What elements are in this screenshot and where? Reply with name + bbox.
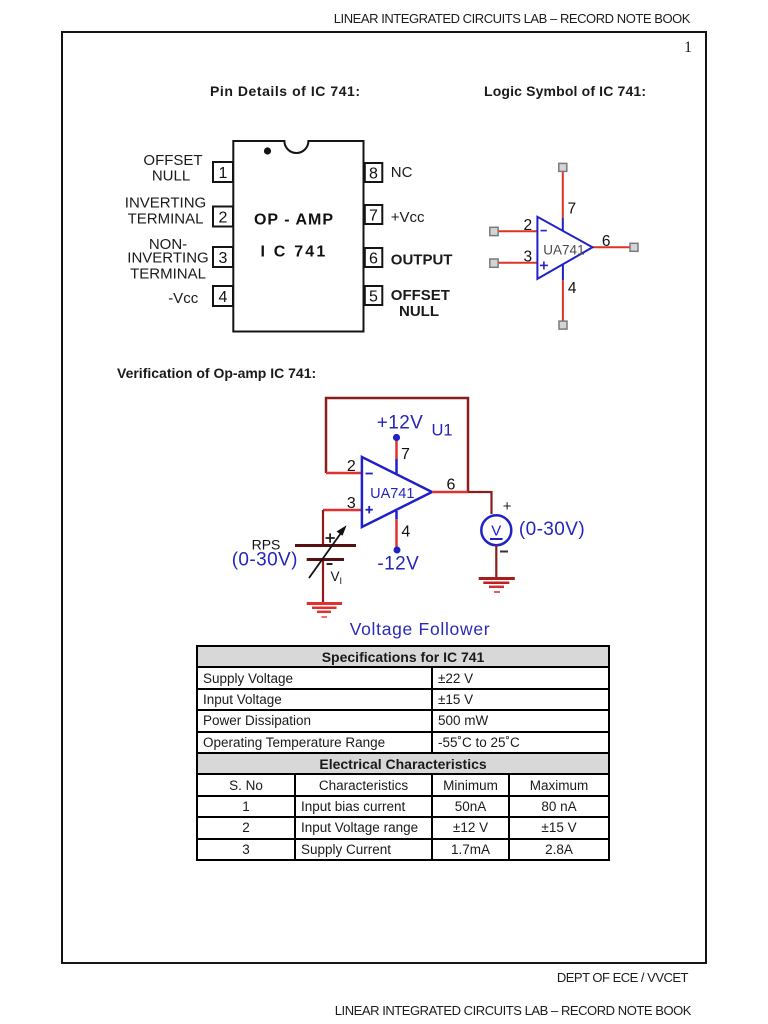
svg-text:8: 8 xyxy=(369,166,378,183)
plus sign non-inverting input xyxy=(366,509,373,511)
svg-text:UA741: UA741 xyxy=(543,243,584,258)
wire pin4 supply (red) xyxy=(395,519,398,547)
svg-text:+12V: +12V xyxy=(377,413,424,434)
terminal square pin6 xyxy=(630,243,638,251)
wire pin4 (blue segment) xyxy=(395,511,398,519)
ground left xyxy=(307,602,342,605)
header running title xyxy=(0,11,690,26)
wire pin6 output (red) xyxy=(432,491,468,494)
IC741 pin diagram xyxy=(110,130,470,345)
voltage follower circuit xyxy=(230,385,660,647)
terminal square pin2 xyxy=(490,227,498,235)
pin 5 box xyxy=(365,286,383,305)
node +12V (blue dot) xyxy=(393,434,400,441)
wire voltmeter to ground (maroon) xyxy=(495,545,497,578)
svg-text:2: 2 xyxy=(347,458,356,475)
terminal square pin4 xyxy=(559,321,567,329)
svg-text:OFFSET: OFFSET xyxy=(391,287,450,304)
terminal square pin3 xyxy=(490,259,498,267)
svg-text:INVERTING: INVERTING xyxy=(125,195,206,212)
svg-text:7: 7 xyxy=(568,201,577,218)
terminal square top xyxy=(559,163,567,171)
svg-text:VI: VI xyxy=(331,569,343,586)
wire battery to ground (maroon) xyxy=(322,561,324,603)
op-amp triangle xyxy=(537,217,592,279)
svg-text:-Vcc: -Vcc xyxy=(168,290,199,307)
wire pin7 supply (red) xyxy=(395,440,398,459)
svg-text:I C 741: I C 741 xyxy=(261,244,328,261)
page number 1 xyxy=(684,39,692,57)
svg-text:3: 3 xyxy=(219,250,228,267)
wire pin3 to RPS (maroon) xyxy=(322,510,324,545)
svg-text:6: 6 xyxy=(369,251,378,268)
svg-text:(0-30V): (0-30V) xyxy=(232,550,298,571)
pin 3 box xyxy=(213,247,233,267)
pin 6 box xyxy=(365,248,383,267)
logic symbol of IC741 xyxy=(480,150,650,340)
wire pin2 input xyxy=(326,472,362,475)
ground right xyxy=(479,577,515,580)
svg-text:2: 2 xyxy=(219,210,228,227)
svg-text:INVERTING: INVERTING xyxy=(127,250,208,267)
pin 8 box xyxy=(365,163,383,182)
svg-text:(0-30V): (0-30V) xyxy=(519,519,585,540)
heading: Verification of Op-amp IC 741 xyxy=(117,365,316,381)
svg-text:4: 4 xyxy=(219,289,228,306)
op-amp U1 triangle xyxy=(362,457,432,527)
svg-text:6: 6 xyxy=(602,233,611,250)
svg-text:1: 1 xyxy=(219,165,228,182)
battery plus xyxy=(326,537,335,539)
pin 7 box xyxy=(365,205,383,224)
page frame xyxy=(61,31,707,964)
pin 1 box xyxy=(213,162,233,182)
svg-text:TERMINAL: TERMINAL xyxy=(130,266,206,283)
IC body with notch xyxy=(233,141,363,332)
svg-text:5: 5 xyxy=(369,289,378,306)
svg-text:7: 7 xyxy=(369,208,378,225)
svg-text:+: + xyxy=(503,498,512,515)
svg-text:OUTPUT: OUTPUT xyxy=(391,252,453,269)
svg-text:V: V xyxy=(491,523,501,540)
svg-text:NC: NC xyxy=(391,164,413,181)
battery minus xyxy=(327,563,333,565)
wire pin4 (blue segment) xyxy=(562,263,564,280)
wire pin3 (red) xyxy=(498,262,538,264)
RPS battery bottom plate xyxy=(307,558,344,561)
pin-1 index dot xyxy=(264,147,271,154)
wire pin7 (blue segment) xyxy=(395,459,398,475)
svg-text:NULL: NULL xyxy=(152,168,190,185)
svg-text:+Vcc: +Vcc xyxy=(391,209,425,226)
footer dept xyxy=(0,970,688,985)
wire pin4 bottom (red) xyxy=(562,280,564,321)
svg-text:UA741: UA741 xyxy=(370,486,414,502)
svg-text:OFFSET: OFFSET xyxy=(143,152,202,169)
heading: Logic Symbol of IC 741 xyxy=(484,83,646,99)
RPS battery top plate xyxy=(295,544,356,547)
svg-text:NULL: NULL xyxy=(399,303,439,320)
svg-text:Voltage Follower: Voltage Follower xyxy=(350,619,491,639)
specifications table xyxy=(196,645,610,861)
footer running title xyxy=(0,1003,691,1018)
plus sign xyxy=(540,264,548,266)
wire pin2 (red) xyxy=(498,230,538,232)
wire output to meter (maroon) xyxy=(468,492,492,514)
svg-text:7: 7 xyxy=(401,446,410,463)
wire pin7 top (red) xyxy=(562,171,564,218)
minus sign xyxy=(541,230,547,232)
svg-text:4: 4 xyxy=(401,524,410,541)
svg-text:3: 3 xyxy=(524,249,533,266)
svg-text:3: 3 xyxy=(347,495,356,512)
svg-text:U1: U1 xyxy=(432,422,453,440)
minus sign inverting input xyxy=(366,473,373,475)
variable source arrow xyxy=(309,533,341,578)
node -12V (blue dot) xyxy=(394,547,401,554)
svg-text:-12V: -12V xyxy=(377,554,419,575)
svg-text:4: 4 xyxy=(568,280,577,297)
svg-text:2: 2 xyxy=(524,217,533,234)
pin 2 box xyxy=(213,207,233,227)
wire pin3 input xyxy=(323,509,362,512)
heading: Pin Details of IC 741 xyxy=(210,83,361,99)
feedback loop wire (maroon) xyxy=(326,398,468,492)
pin 4 box xyxy=(213,286,233,306)
svg-text:OP - AMP: OP - AMP xyxy=(254,212,334,229)
svg-text:6: 6 xyxy=(447,477,456,494)
svg-text:TERMINAL: TERMINAL xyxy=(128,211,204,228)
voltmeter minus xyxy=(500,551,508,553)
wire pin6 output (red) xyxy=(593,246,631,248)
wire pin7 (blue segment) xyxy=(562,218,564,232)
voltmeter V xyxy=(481,515,511,545)
